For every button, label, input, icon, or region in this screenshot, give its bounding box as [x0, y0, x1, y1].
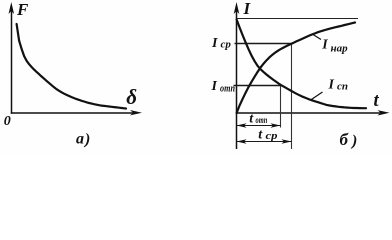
graph b: t axis arrowhead	[378, 110, 390, 115]
svg-text:нар: нар	[331, 42, 349, 54]
graph a: delta axis (horizontal)	[11, 112, 135, 114]
svg-text:δ: δ	[126, 85, 137, 109]
svg-text:I: I	[321, 38, 328, 53]
graph a: F axis arrowhead	[9, 2, 15, 14]
graph b: I_nar label leader line	[313, 35, 321, 40]
graph b: I_nar rising curve	[237, 23, 355, 114]
svg-text:t: t	[374, 91, 380, 111]
svg-text:): )	[83, 131, 90, 148]
graph b: I_sp falling curve	[237, 20, 366, 109]
graph b: vertical projection line at t_otp	[280, 86, 282, 128]
svg-text:I: I	[211, 36, 218, 51]
graph b: top asymptote line	[237, 18, 359, 20]
graph b: I_sp label leader line	[311, 92, 323, 100]
graph a: delta axis arrowhead	[130, 110, 142, 115]
svg-text:I: I	[211, 79, 218, 94]
graph b: I axis (vertical, extends below t-axis as extension line)	[236, 10, 238, 149]
svg-text:отп: отп	[256, 116, 268, 126]
svg-text:сп: сп	[337, 81, 348, 93]
svg-text:а: а	[76, 131, 84, 148]
svg-text:I: I	[328, 78, 335, 93]
graph b: t_sr dimension line with arrows	[237, 141, 292, 143]
graph a: decaying force curve	[17, 24, 126, 109]
graph b: I axis arrowhead	[234, 2, 240, 14]
svg-text:ср: ср	[266, 131, 278, 142]
graph b: t_otp dimension line with arrows	[237, 125, 281, 127]
graph b: I_sr level line	[235, 43, 292, 45]
graph a: F axis (vertical)	[11, 10, 13, 114]
svg-text:): )	[350, 132, 357, 149]
svg-text:отп: отп	[220, 83, 235, 94]
graph b: I_otp level line	[234, 85, 281, 87]
graph b: vertical projection line at t_sr	[291, 44, 293, 150]
svg-text:ср: ср	[221, 39, 232, 51]
graph b: t axis (horizontal)	[237, 112, 383, 114]
svg-text:F: F	[16, 0, 29, 19]
svg-text:0: 0	[4, 114, 11, 129]
